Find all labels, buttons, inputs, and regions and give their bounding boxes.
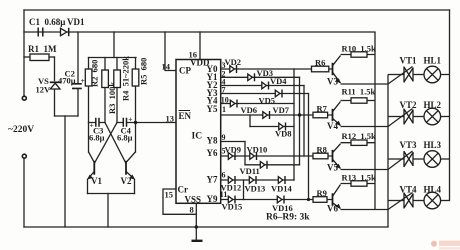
svg-text:R13 1.5k: R13 1.5k bbox=[342, 173, 377, 183]
lamp HL2 bbox=[424, 108, 441, 125]
svg-text:8: 8 bbox=[190, 205, 194, 215]
resistor R7 bbox=[313, 112, 328, 118]
wire: EN overbar bbox=[179, 110, 191, 112]
resistor R10 bbox=[351, 52, 367, 57]
svg-text:11: 11 bbox=[220, 190, 228, 199]
wire: HL1 to right rail bbox=[441, 74, 450, 76]
wire: terminal 2 down to bottom rail bbox=[23, 159, 25, 228]
wire: VT4 gate diagonal bbox=[388, 193, 413, 210]
resistor R8 bbox=[313, 153, 328, 159]
transistor V4 bbox=[333, 102, 341, 126]
resistor R12 bbox=[351, 140, 367, 145]
diode VD13 bbox=[249, 176, 256, 184]
svg-text:HL3: HL3 bbox=[424, 140, 442, 150]
node: bus4/R9 row junction bbox=[307, 198, 310, 201]
resistor R4 bbox=[114, 70, 121, 88]
resistor R6 bbox=[312, 66, 329, 72]
diode VD14 bbox=[278, 176, 285, 184]
svg-text:R6–R9: 3k: R6–R9: 3k bbox=[266, 213, 310, 223]
svg-text:Y8: Y8 bbox=[207, 136, 218, 146]
node: V2 collector / C4 / EN junction bbox=[134, 121, 137, 124]
svg-text:CP: CP bbox=[179, 66, 191, 76]
diode VD10 bbox=[250, 152, 257, 160]
ground symbol below rail bbox=[192, 240, 203, 242]
svg-text:V1: V1 bbox=[91, 176, 102, 186]
svg-text:R4 51~220k: R4 51~220k bbox=[121, 56, 131, 101]
wire: Y7 pin6 row bbox=[221, 179, 294, 181]
wire: +12V feed vertical v1 to R10-R13 bbox=[374, 32, 376, 210]
wire: R12 collector row bbox=[341, 142, 376, 144]
wire: Y4 pin10 row bbox=[221, 103, 294, 105]
wire: V1/V2 emitter join bbox=[88, 193, 135, 195]
node: bus2/R7 row junction bbox=[298, 113, 301, 116]
svg-text:9: 9 bbox=[222, 133, 226, 142]
wire: VT3 gate diagonal bbox=[388, 151, 413, 170]
wire: Y3 pin7 row bbox=[221, 93, 309, 95]
svg-text:6: 6 bbox=[222, 171, 226, 180]
wire: matrix bus 1 bbox=[293, 69, 295, 180]
wire: Y9 pin11 row to R9 and V6 base bbox=[221, 199, 332, 201]
wire: Y8 pin9 row bbox=[221, 141, 245, 143]
svg-text:HL4: HL4 bbox=[424, 185, 442, 195]
transistor V1 bbox=[88, 152, 95, 179]
wire: C2 vertical branch from +12 rail bbox=[77, 32, 79, 116]
op-amp IC box (CD4017 counter) bbox=[176, 60, 221, 204]
svg-text:13: 13 bbox=[166, 114, 175, 124]
wire: R1 left lead bbox=[24, 56, 30, 58]
wire: R5 leads and V2 collector line bbox=[135, 58, 137, 153]
wire: Y1 pin2 row bbox=[221, 76, 300, 78]
wire: HL3 to right rail bbox=[441, 158, 450, 160]
svg-text:6.8μ: 6.8μ bbox=[89, 133, 105, 143]
svg-text:14: 14 bbox=[162, 62, 171, 72]
svg-text:15: 15 bbox=[165, 190, 174, 200]
wire: matrix bus 3 bbox=[303, 86, 305, 157]
resistor R11 bbox=[351, 98, 367, 103]
diode VD9 bbox=[228, 152, 235, 160]
wire: VT2 gate diagonal bbox=[388, 109, 413, 127]
diode VD16 bbox=[277, 196, 284, 204]
svg-text:R6: R6 bbox=[315, 58, 325, 68]
wire: drop from VS/C2 join to neutral rail bbox=[64, 116, 66, 227]
zener diode VS bbox=[50, 82, 61, 89]
wire: VT3 to HL3 bbox=[413, 158, 425, 160]
wire: R11 collector row bbox=[341, 100, 376, 102]
wire: right vertical rail to lamps bbox=[449, 10, 451, 201]
svg-text:R7: R7 bbox=[317, 104, 328, 114]
wire: EN pin13 line to V2 collector node bbox=[136, 122, 177, 124]
wire: V4 emitter line bbox=[341, 126, 389, 128]
diode VD4 bbox=[262, 82, 269, 90]
capacitor C4 bbox=[123, 118, 126, 127]
resistor R1 bbox=[30, 54, 49, 61]
wire: VDD pin16 riser bbox=[199, 32, 201, 60]
wire: VT1 gate diagonal bbox=[388, 67, 413, 85]
wire: cross-coupling diagonal R4 bottom to V1 base bbox=[95, 123, 117, 163]
wire: VSS pin8 drop to rail and ground bbox=[195, 203, 197, 240]
transistor V6 bbox=[333, 185, 341, 209]
wire: left vertical from top rail to terminal 1 bbox=[23, 10, 25, 96]
wire: VT2 cathode link bbox=[388, 116, 404, 118]
svg-text:V3: V3 bbox=[327, 77, 338, 87]
transistor V2 bbox=[126, 152, 136, 179]
svg-text:Y7: Y7 bbox=[207, 175, 218, 185]
svg-text:IC: IC bbox=[192, 132, 203, 142]
resistor R5 bbox=[132, 69, 139, 86]
wire: multivibrator emitter drop to neutral rail bbox=[107, 194, 109, 228]
wire: R3 leads bbox=[104, 58, 106, 123]
svg-text:VD15: VD15 bbox=[222, 202, 243, 212]
wire: VT1 to HL1 bbox=[413, 74, 425, 76]
terminal: AC input terminal 1 bbox=[22, 96, 26, 100]
svg-text:Y6: Y6 bbox=[207, 148, 218, 158]
wire: Y8 drop to VD11 row bbox=[244, 142, 246, 165]
wire: C3 horizontal links bbox=[89, 122, 106, 124]
node: pin8 junction on neutral rail bbox=[195, 225, 198, 228]
wire: C4 horizontal links bbox=[117, 122, 136, 124]
svg-text:6.8μ: 6.8μ bbox=[117, 133, 133, 143]
svg-text:VT1: VT1 bbox=[400, 56, 418, 66]
svg-text:470μ: 470μ bbox=[58, 76, 76, 86]
wire: VT2 to HL2 bbox=[413, 116, 425, 118]
svg-text:VT2: VT2 bbox=[400, 100, 418, 110]
svg-text:VD10: VD10 bbox=[247, 144, 268, 154]
wire: VD11 row bbox=[245, 164, 300, 166]
thyristor VT3 bbox=[404, 151, 413, 167]
svg-text:VD2: VD2 bbox=[225, 57, 242, 67]
capacitor C2 (electrolytic) bbox=[72, 84, 82, 89]
diode VD12 bbox=[228, 176, 235, 184]
wire: VT4 cathode link bbox=[388, 200, 404, 202]
thyristor VT4 bbox=[404, 193, 413, 209]
svg-text:12V: 12V bbox=[36, 85, 52, 95]
lamp HL1 bbox=[424, 66, 441, 83]
svg-text:R11 1.5k: R11 1.5k bbox=[342, 87, 376, 97]
svg-text:C1 0.68μ: C1 0.68μ bbox=[29, 17, 65, 27]
wire: VT4 to HL4 bbox=[413, 200, 425, 202]
capacitor C3 bbox=[96, 118, 99, 127]
wire: R4 leads bbox=[116, 58, 118, 123]
wire: V3 emitter line bbox=[341, 83, 389, 85]
transistor V3 bbox=[333, 56, 341, 84]
terminal: AC input terminal 2 bbox=[22, 154, 26, 158]
wire: Y5 pin1 row to R7 and V4 base bbox=[221, 114, 332, 116]
wire: V5 emitter line bbox=[341, 169, 389, 171]
svg-text:V2: V2 bbox=[121, 176, 132, 186]
svg-text:VT4: VT4 bbox=[400, 185, 418, 195]
svg-text:VSS: VSS bbox=[185, 195, 202, 205]
diode VD11 bbox=[260, 161, 267, 169]
svg-text:V4: V4 bbox=[327, 121, 338, 131]
svg-text:10: 10 bbox=[221, 96, 229, 105]
svg-text:R9: R9 bbox=[317, 188, 327, 198]
wire: V6 emitter line bbox=[341, 209, 389, 211]
wire: Cr pin15 line bbox=[163, 189, 196, 214]
wire: bottom AC neutral rail bbox=[24, 226, 388, 228]
svg-text:5: 5 bbox=[222, 147, 226, 156]
wire: VT1 cathode link bbox=[388, 74, 404, 76]
svg-text:+: + bbox=[128, 115, 132, 124]
capacitor C1 bbox=[38, 28, 43, 37]
wire: matrix bus 4 bbox=[308, 94, 310, 200]
wire: VS zener vertical branch bbox=[54, 57, 56, 116]
wire: V1 emitter drop bbox=[87, 180, 89, 194]
svg-text:R2 680: R2 680 bbox=[90, 60, 100, 87]
wire: R10 collector row bbox=[341, 54, 376, 56]
svg-text:VD16: VD16 bbox=[272, 203, 293, 213]
wire: +12V DC rail bbox=[24, 31, 375, 33]
svg-text:VD4: VD4 bbox=[270, 76, 287, 86]
diode VD2 bbox=[230, 65, 237, 73]
svg-text:~220V: ~220V bbox=[8, 125, 34, 135]
wire: R2-R5 supply bus bbox=[89, 57, 137, 59]
svg-text:R12 1.5k: R12 1.5k bbox=[342, 131, 377, 141]
wire: R13 collector row bbox=[341, 183, 376, 185]
resistor R13 bbox=[351, 181, 367, 186]
svg-text:HL1: HL1 bbox=[424, 56, 442, 66]
lamp HL3 bbox=[424, 151, 441, 168]
svg-text:VD8: VD8 bbox=[275, 129, 292, 139]
svg-text:VD9: VD9 bbox=[225, 144, 242, 154]
watermark logo bbox=[431, 241, 460, 250]
svg-text:Cr: Cr bbox=[178, 185, 189, 195]
svg-text:VT3: VT3 bbox=[400, 140, 418, 150]
diode VD7 bbox=[263, 111, 270, 119]
resistor R2 bbox=[85, 69, 92, 86]
svg-text:R10 1.5k: R10 1.5k bbox=[342, 44, 377, 54]
wire: top AC live rail bbox=[24, 9, 450, 11]
svg-text:VD5: VD5 bbox=[259, 96, 276, 106]
diode VD6 bbox=[230, 100, 237, 108]
svg-text:R1 1M: R1 1M bbox=[28, 44, 57, 54]
wire: R1 right lead to VS branch bbox=[49, 56, 55, 58]
lamp HL4 bbox=[424, 192, 441, 209]
svg-text:V5: V5 bbox=[327, 163, 338, 173]
svg-text:VD1: VD1 bbox=[67, 17, 85, 27]
diode VD1 bbox=[61, 28, 69, 36]
resistor R3 bbox=[102, 70, 109, 88]
wire: CP pin14 riser from +12 rail bbox=[165, 32, 176, 71]
diode VD8 bbox=[279, 123, 286, 131]
wire: VS/C2 bottom join bbox=[55, 115, 79, 117]
svg-text:VD7: VD7 bbox=[273, 105, 290, 115]
svg-text:R8: R8 bbox=[317, 144, 327, 154]
thyristor VT2 bbox=[404, 109, 413, 125]
resistor R9 bbox=[313, 197, 327, 203]
diode VD3 bbox=[248, 73, 255, 81]
svg-text:1: 1 bbox=[222, 105, 226, 114]
wire: R2 leads and V1 collector line bbox=[88, 58, 90, 153]
wire: link Y7 row to Y9 row bbox=[243, 180, 245, 200]
diode VD15 bbox=[228, 196, 235, 204]
svg-text:VD11: VD11 bbox=[240, 166, 260, 176]
wire: cross-coupling diagonal R3 bottom to V2 base bbox=[105, 123, 126, 163]
wire: V2 emitter drop bbox=[134, 180, 136, 194]
svg-text:7: 7 bbox=[222, 86, 226, 95]
wire: VT3 cathode link bbox=[388, 158, 404, 160]
svg-text:R5 680: R5 680 bbox=[139, 58, 149, 85]
wire: Y2 pin4 row bbox=[221, 85, 304, 87]
svg-text:V6: V6 bbox=[327, 204, 338, 214]
svg-text:VD6: VD6 bbox=[241, 105, 258, 115]
wire: HL4 to right rail bbox=[441, 200, 450, 202]
svg-text:VD13: VD13 bbox=[245, 184, 266, 194]
wire: Y0 pin3 row to R6 and V3 base bbox=[221, 68, 332, 70]
transistor V5 bbox=[333, 144, 341, 169]
diode VD5 bbox=[275, 90, 282, 98]
wire: VD8 row bbox=[250, 126, 294, 128]
svg-text:Y5: Y5 bbox=[207, 104, 218, 114]
svg-text:Y9: Y9 bbox=[207, 194, 218, 204]
svg-text:+: + bbox=[81, 76, 85, 85]
wire: matrix bus 2 bbox=[299, 77, 301, 165]
thyristor VT1 bbox=[404, 67, 413, 83]
wire: Y6 pin5 row to R8 and V5 base bbox=[221, 155, 332, 157]
svg-text:VD14: VD14 bbox=[271, 184, 293, 194]
wire: riser from +12 rail to R2-R5 supply bus bbox=[113, 32, 115, 58]
svg-text:HL2: HL2 bbox=[424, 100, 442, 110]
svg-text:EN: EN bbox=[179, 111, 192, 121]
wire: HL2 to right rail bbox=[441, 116, 450, 118]
wire: common cathode return vertical v2 bbox=[387, 75, 389, 228]
wire: VD8 branch drop bbox=[249, 115, 251, 127]
